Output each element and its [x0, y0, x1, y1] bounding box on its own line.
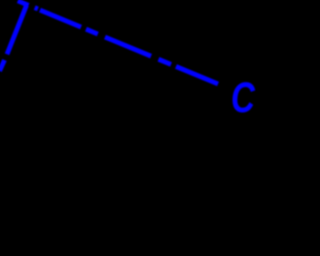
svg-text:C: C: [231, 75, 255, 122]
